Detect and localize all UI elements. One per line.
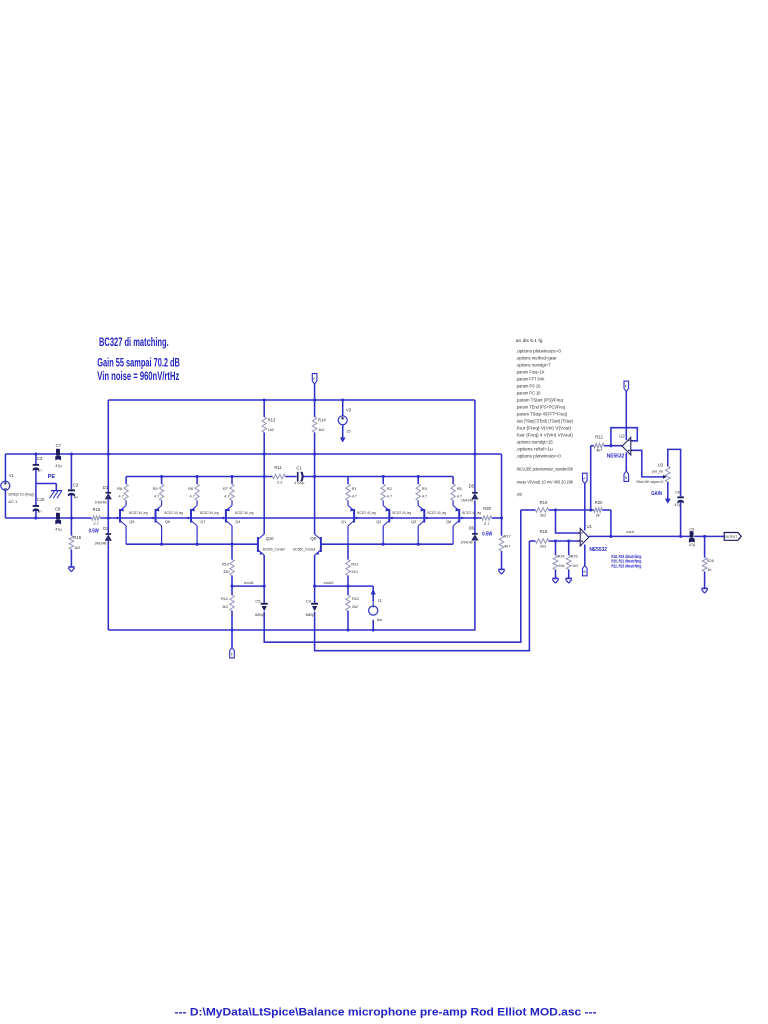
svg-text:BC327-40_leg: BC327-40_leg xyxy=(165,511,184,515)
svg-text:R19: R19 xyxy=(540,500,548,505)
svg-text:2k: 2k xyxy=(596,512,600,517)
node vout label xyxy=(626,529,634,534)
wire R20 to corner xyxy=(602,509,611,511)
svg-text:B: B xyxy=(584,570,586,574)
svg-text:D2: D2 xyxy=(103,526,109,531)
flag net F top xyxy=(312,374,317,384)
wire V3 top lead xyxy=(342,400,344,416)
potentiometer U3 xyxy=(636,462,670,497)
resistor R21 xyxy=(346,560,359,576)
svg-text:C10: C10 xyxy=(37,497,45,502)
junction xyxy=(609,535,612,538)
svg-text:GAIN: GAIN xyxy=(651,491,662,497)
svg-text:AC 1: AC 1 xyxy=(8,499,18,504)
svg-text:4.7: 4.7 xyxy=(387,495,392,499)
svg-text:R8: R8 xyxy=(188,486,193,491)
junction xyxy=(473,452,476,455)
capacitor C6 xyxy=(674,489,683,507)
junction xyxy=(426,517,428,519)
wire C3 to PE junction xyxy=(35,469,37,505)
svg-text:R22, R23 dimatching.: R22, R23 dimatching. xyxy=(611,563,642,568)
svg-text:Q5: Q5 xyxy=(129,520,134,524)
node eout2 xyxy=(324,580,335,585)
ground under R24 xyxy=(552,578,558,583)
svg-text:.options plotwinsize=0: .options plotwinsize=0 xyxy=(516,453,562,458)
svg-text:Gain 55 sampai 70.2 dB: Gain 55 sampai 70.2 dB xyxy=(97,357,180,369)
svg-text:1n: 1n xyxy=(37,509,41,514)
flag net F bottom xyxy=(230,648,235,658)
flag U1 Vplus xyxy=(583,473,588,483)
svg-text:2k2: 2k2 xyxy=(352,605,358,609)
wire R13 column to Q10 emitter xyxy=(263,433,265,535)
junction xyxy=(187,517,189,519)
svg-text:NE5532: NE5532 xyxy=(589,547,607,553)
svg-text:Q1: Q1 xyxy=(341,520,346,524)
svg-text:6m: 6m xyxy=(377,617,382,622)
wire U2 Vminus xyxy=(625,453,627,472)
wire main input line through transistor banks xyxy=(100,517,482,519)
junction xyxy=(346,628,349,631)
junction xyxy=(703,535,706,538)
junction xyxy=(222,517,224,519)
svg-text:1N4148: 1N4148 xyxy=(461,540,473,544)
capacitor C7 xyxy=(55,443,62,468)
svg-text:47µ: 47µ xyxy=(55,463,62,468)
wire U1 upper input L xyxy=(556,510,582,533)
wire vout to output port xyxy=(694,535,724,537)
capacitor C2 xyxy=(68,483,79,499)
wire PE branch horizontal xyxy=(36,483,56,485)
junction xyxy=(116,517,118,519)
resistor R18 xyxy=(535,529,548,549)
svg-text:BC327-40_leg: BC327-40_leg xyxy=(235,511,254,515)
junction xyxy=(391,517,393,519)
wire R26 stub xyxy=(704,536,706,557)
svg-text:2k2: 2k2 xyxy=(540,543,546,548)
wire R12 R20 vertical xyxy=(590,446,592,510)
wire R25 gnd lead xyxy=(568,569,570,578)
svg-text:R1: R1 xyxy=(352,486,357,491)
svg-text:eout1: eout1 xyxy=(244,580,255,585)
svg-text:4.7: 4.7 xyxy=(352,495,357,499)
svg-text:Q4: Q4 xyxy=(235,520,240,524)
junction xyxy=(473,516,476,519)
svg-text:4.7: 4.7 xyxy=(422,495,427,499)
resistor R26 xyxy=(702,558,714,573)
junction xyxy=(313,398,316,401)
op-amp U2 xyxy=(607,433,633,459)
svg-text:F: F xyxy=(313,377,315,381)
wire V1 loop left top xyxy=(4,454,6,481)
svg-text:BC327-40_leg: BC327-40_leg xyxy=(357,511,376,515)
resistor R28 xyxy=(482,506,493,538)
svg-text:R21: R21 xyxy=(351,561,358,566)
svg-text:D6: D6 xyxy=(469,525,475,530)
diode D2 xyxy=(94,526,111,546)
junction xyxy=(230,543,233,546)
svg-text:1k2: 1k2 xyxy=(268,427,274,432)
transistor Q8 with resistor R5 xyxy=(446,477,481,545)
wire feedback drop to vout xyxy=(610,510,612,536)
svg-text:vout: vout xyxy=(626,529,634,534)
wire right box edge upper xyxy=(474,400,476,492)
svg-text:.param FFT 64K: .param FFT 64K xyxy=(516,376,545,381)
svg-text:BC327-40_leg: BC327-40_leg xyxy=(200,511,219,515)
svg-text:R17: R17 xyxy=(504,534,511,539)
svg-text:PE: PE xyxy=(48,474,56,480)
junction xyxy=(160,543,163,546)
resistor R24 xyxy=(553,555,565,570)
junction xyxy=(230,475,233,478)
svg-text:Q2: Q2 xyxy=(376,520,381,524)
wire PE branch vertical xyxy=(55,484,57,491)
svg-text:1n: 1n xyxy=(37,467,41,472)
wire V3 bottom lead xyxy=(342,425,344,438)
svg-text:680p: 680p xyxy=(255,613,264,617)
svg-text:SINE(0 1m {freq}): SINE(0 1m {freq}) xyxy=(8,492,35,497)
svg-text:R28: R28 xyxy=(483,506,491,511)
resistor R12 xyxy=(594,434,604,452)
junction xyxy=(196,475,199,478)
wire R24 stub xyxy=(555,541,557,555)
wire R18 to U1 xyxy=(549,540,581,542)
svg-text:4.7: 4.7 xyxy=(190,495,195,499)
wire emitter rail middle segment xyxy=(285,476,296,478)
wire R25 stub xyxy=(568,541,570,555)
svg-text:Rtot=5K wiper=0: Rtot=5K wiper=0 xyxy=(636,480,663,484)
svg-text:4.7: 4.7 xyxy=(119,495,124,499)
text spice directives xyxy=(516,338,574,496)
svg-text:V3: V3 xyxy=(346,408,352,413)
svg-text:F: F xyxy=(231,652,233,656)
wire R16 top lead xyxy=(70,518,72,536)
wire R21 column xyxy=(347,544,349,559)
wire left box edge middle xyxy=(107,500,109,534)
junction xyxy=(34,452,37,455)
output port OUTPUT xyxy=(724,533,741,541)
junction xyxy=(313,475,316,478)
svg-text:F: F xyxy=(584,477,586,481)
svg-text:D5: D5 xyxy=(469,484,475,489)
svg-text:33k: 33k xyxy=(558,564,564,568)
ground under pot xyxy=(665,497,670,504)
junction xyxy=(107,516,110,519)
capacitor C9 xyxy=(689,527,696,548)
svg-text:C4: C4 xyxy=(306,598,312,603)
svg-text:F: F xyxy=(625,385,627,389)
junction xyxy=(107,452,110,455)
svg-text:.meas V(Vout) 10 mV 400 20 20k: .meas V(Vout) 10 mV 400 20 20k xyxy=(516,480,574,485)
node eout1 xyxy=(244,580,255,585)
svg-text:1k2: 1k2 xyxy=(318,427,324,432)
svg-text:.options plotwinsize=0: .options plotwinsize=0 xyxy=(516,348,562,353)
svg-text:R14: R14 xyxy=(318,418,326,423)
wire R22 to bottom rail xyxy=(347,611,349,630)
svg-text:BC327-40_leg: BC327-40_leg xyxy=(393,511,412,515)
wire supply rail +15V xyxy=(108,399,475,401)
wire collector rail right bank xyxy=(322,543,454,545)
svg-text:47µ: 47µ xyxy=(674,503,681,507)
junction xyxy=(70,516,73,519)
wire flag column top xyxy=(314,384,316,417)
wire U2 Vplus xyxy=(625,392,627,441)
wire I1 bottom lead xyxy=(372,620,374,630)
svg-text:R10: R10 xyxy=(222,561,230,566)
capacitor C3 xyxy=(33,456,43,472)
wire eout1 link xyxy=(232,585,264,587)
svg-text:47µ: 47µ xyxy=(689,543,696,547)
wire C6 to vout xyxy=(680,502,682,536)
wire C2 column bottom xyxy=(70,495,72,518)
junction xyxy=(160,475,163,478)
svg-text:eout2: eout2 xyxy=(324,580,335,585)
transistor Q3 with resistor R3 xyxy=(411,477,446,545)
svg-text:1k2: 1k2 xyxy=(74,545,80,550)
junction xyxy=(382,543,385,546)
svg-text:R13: R13 xyxy=(268,418,276,423)
junction xyxy=(313,452,316,455)
diode D6 xyxy=(461,525,478,544)
ground under R17 xyxy=(498,569,504,574)
svg-text:1N914B: 1N914B xyxy=(95,500,107,504)
junction xyxy=(554,539,557,542)
wire R10 to eout1 xyxy=(231,576,233,596)
flag U2 Vplus xyxy=(624,381,629,391)
svg-text:R2: R2 xyxy=(387,486,392,491)
svg-text:BC550_Cordell: BC550_Cordell xyxy=(293,548,315,552)
transistor Q6 with resistor R9 xyxy=(153,477,183,545)
junction xyxy=(263,475,266,478)
wire C5 to eout1 bus corner xyxy=(264,510,521,642)
wire R19 to junction xyxy=(549,509,594,511)
wire R10 column xyxy=(231,544,233,559)
svg-text:BC327-40_leg: BC327-40_leg xyxy=(428,511,447,515)
svg-text:Q6: Q6 xyxy=(165,520,170,524)
wire right box edge middle xyxy=(474,500,476,533)
transistor Q7 with resistor R8 xyxy=(188,477,218,545)
wire R21 to eout2 xyxy=(347,576,349,596)
resistor R11 xyxy=(272,465,285,485)
svg-text:R25: R25 xyxy=(571,555,578,559)
ground under R25 xyxy=(566,578,572,583)
junction xyxy=(417,543,420,546)
junction xyxy=(346,585,349,588)
junction xyxy=(34,516,37,519)
wire output of R28 to node xyxy=(492,517,502,519)
wire U1 Vminus xyxy=(584,545,586,566)
resistor R25 xyxy=(566,555,578,570)
wire eout2 link xyxy=(315,585,374,587)
wire top signal line xyxy=(5,453,501,455)
svg-text:R16: R16 xyxy=(73,535,81,540)
svg-text:Vin noise = 960nV/rtHz: Vin noise = 960nV/rtHz xyxy=(97,371,179,383)
resistor R19 xyxy=(535,500,548,518)
wire vout line xyxy=(589,535,690,537)
junction xyxy=(679,535,682,538)
svg-text:4.7: 4.7 xyxy=(154,495,159,499)
junction xyxy=(567,539,570,542)
resistor R14 xyxy=(312,417,326,433)
wire R13 column upper xyxy=(263,400,265,417)
svg-text:R12: R12 xyxy=(595,434,603,439)
voltage source V1 xyxy=(1,473,35,504)
junction xyxy=(500,516,503,519)
wire U2 input feed xyxy=(591,445,594,447)
wire emitter rail left segment xyxy=(126,476,272,478)
ground under R26 xyxy=(701,588,707,593)
svg-text:4700p: 4700p xyxy=(294,481,304,485)
capacitor C4 xyxy=(306,598,319,617)
svg-text:.param Freq=1K: .param Freq=1K xyxy=(516,369,545,374)
svg-text:R3: R3 xyxy=(422,486,427,491)
flag U2 Vminus xyxy=(624,471,629,481)
junction xyxy=(341,398,344,401)
svg-text:R26: R26 xyxy=(707,559,714,563)
wire left box edge upper xyxy=(107,400,109,492)
wire U2 feedback loop xyxy=(611,428,637,446)
capacitor C1 xyxy=(294,466,304,485)
text title bottom xyxy=(175,1006,597,1018)
svg-text:.four {Freq} 4 V(Vin) V(Vout): .four {Freq} 4 V(Vin) V(Vout) xyxy=(516,432,574,437)
resistor R16 xyxy=(69,535,82,550)
svg-text:R22: R22 xyxy=(352,596,359,601)
svg-text:2k2: 2k2 xyxy=(540,512,546,517)
svg-text:Q3: Q3 xyxy=(411,520,416,524)
svg-text:.options method=gear: .options method=gear xyxy=(516,355,558,360)
transistor Q2 with resistor R2 xyxy=(376,477,411,545)
wire U1 Vplus xyxy=(584,484,586,531)
svg-text:C9: C9 xyxy=(689,527,694,532)
diode D5 xyxy=(461,484,478,503)
wire C2 column top xyxy=(70,454,72,489)
wire C3 column top xyxy=(35,454,37,464)
svg-text:C6: C6 xyxy=(675,489,680,494)
transistor Q10 xyxy=(258,534,285,555)
resistor R12b xyxy=(221,595,234,611)
svg-text:R5: R5 xyxy=(457,486,462,491)
junction xyxy=(609,444,612,447)
svg-text:0.5W: 0.5W xyxy=(89,529,100,535)
svg-text:2k2: 2k2 xyxy=(222,605,228,609)
transistor Q5 with resistor R6 xyxy=(117,477,147,545)
svg-text:BC327 di matching.: BC327 di matching. xyxy=(99,337,169,349)
svg-text:NE5532: NE5532 xyxy=(607,454,625,460)
wire load resistor to ground xyxy=(501,551,503,569)
svg-text:R11: R11 xyxy=(274,465,282,470)
svg-text:1N4148: 1N4148 xyxy=(461,498,473,502)
text heading BC327 xyxy=(97,337,180,383)
svg-text:0.5W: 0.5W xyxy=(482,531,493,537)
svg-text:B: B xyxy=(625,476,627,480)
svg-text:2.7: 2.7 xyxy=(484,521,489,526)
resistor R10 xyxy=(222,560,234,576)
wire U2 output to pot wiper xyxy=(631,450,664,477)
junction xyxy=(589,508,592,511)
svg-text:pot_lin: pot_lin xyxy=(652,469,663,473)
svg-text:R6: R6 xyxy=(117,486,122,491)
transistor Q1 with resistor R1 xyxy=(341,477,376,545)
svg-text:.options reltol=1u: .options reltol=1u xyxy=(516,446,553,451)
ground under R16 xyxy=(68,567,74,572)
svg-text:Q8: Q8 xyxy=(446,520,451,524)
flag U1 Vminus xyxy=(583,565,588,575)
wire pot bottom lead xyxy=(667,482,669,499)
junction xyxy=(230,585,233,588)
svg-text:C8: C8 xyxy=(55,507,61,512)
junction xyxy=(196,543,199,546)
wire V1 loop left bottom xyxy=(4,490,6,518)
svg-text:U3: U3 xyxy=(658,462,664,467)
svg-text:.tran {TStep} {TEnd} {TStart}: .tran {TStep} {TEnd} {TStart} {TStep} xyxy=(516,418,574,423)
wire bottom flag stub xyxy=(231,630,233,648)
wire lower input line xyxy=(529,540,535,542)
junction xyxy=(417,475,420,478)
svg-text:BC327-40_leg: BC327-40_leg xyxy=(129,511,148,515)
svg-text:.param PS 10: .param PS 10 xyxy=(516,383,541,388)
svg-text:R20: R20 xyxy=(595,500,603,505)
svg-text:1k1: 1k1 xyxy=(572,564,578,568)
svg-text:.param TStep 4/{FFT*Freq}: .param TStep 4/{FFT*Freq} xyxy=(516,411,568,416)
junction xyxy=(372,628,375,631)
transistor Q9 xyxy=(293,534,321,555)
wire collector rail left bank xyxy=(126,543,257,545)
ground under V3 xyxy=(340,436,345,443)
svg-text:R7: R7 xyxy=(223,486,228,491)
svg-text:C2: C2 xyxy=(73,483,79,488)
junction xyxy=(313,585,316,588)
svg-text:OUTPUT: OUTPUT xyxy=(725,535,737,539)
svg-text:.options numdgt=15: .options numdgt=15 xyxy=(516,439,554,444)
svg-text:15: 15 xyxy=(346,428,350,433)
wire R26 gnd lead xyxy=(704,572,706,589)
svg-text:C7: C7 xyxy=(56,443,62,448)
svg-text:Q10: Q10 xyxy=(266,536,275,541)
wire right box edge lower xyxy=(474,541,476,630)
wire opamp stage upper input line xyxy=(521,509,536,511)
op-amp U1 xyxy=(578,524,607,553)
svg-text:--- D:\MyData\LtSpice\Balance: --- D:\MyData\LtSpice\Balance microphone… xyxy=(175,1006,597,1018)
svg-text:2.7: 2.7 xyxy=(93,521,98,526)
junction xyxy=(152,517,154,519)
svg-text:.param PC 10: .param PC 10 xyxy=(516,390,541,395)
ground PE earth symbol xyxy=(48,474,62,498)
resistor R20 xyxy=(594,500,603,518)
svg-text:an dis 6.1 fg: an dis 6.1 fg xyxy=(516,338,544,343)
wire R12 to bottom rail xyxy=(231,611,233,630)
svg-text:U1: U1 xyxy=(587,524,593,529)
voltage source V3 xyxy=(338,408,352,434)
text matching note xyxy=(611,554,642,569)
wire Q9 collector down xyxy=(314,555,316,603)
resistor R17 xyxy=(499,534,510,551)
resistor R15 xyxy=(89,507,101,535)
junction xyxy=(382,475,385,478)
diode D1 xyxy=(95,485,112,504)
wire emitter rail right segment xyxy=(303,476,454,478)
junction xyxy=(263,452,266,455)
svg-text:D1: D1 xyxy=(103,485,109,490)
svg-text:C1: C1 xyxy=(296,466,302,471)
wire bottom rail of box xyxy=(108,629,475,631)
svg-text:.param TStart {PS}/Freq: .param TStart {PS}/Freq xyxy=(516,397,564,402)
svg-text:BC327-40_leg: BC327-40_leg xyxy=(462,511,481,515)
svg-text:R18: R18 xyxy=(540,529,548,534)
svg-text:1k: 1k xyxy=(707,568,711,572)
resistor R22 xyxy=(346,595,359,611)
svg-text:.INCLUDE potentiometer_standar: .INCLUDE potentiometer_standard.lib xyxy=(516,467,574,472)
wire left box edge lower xyxy=(107,541,109,630)
svg-text:C3: C3 xyxy=(37,456,43,461)
